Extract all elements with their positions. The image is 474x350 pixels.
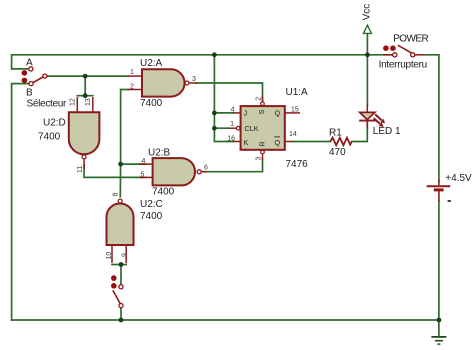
wire top rail drop to J/CLK/K (213, 55, 215, 128)
svg-text:Interrupteru: Interrupteru (379, 59, 427, 70)
svg-text:LED 1: LED 1 (373, 126, 401, 137)
svg-text:7400: 7400 (140, 98, 163, 109)
node junction bus pin4 (118, 162, 123, 167)
wire U2:A pin2 to vertical bus (121, 90, 128, 165)
svg-text:5: 5 (141, 172, 145, 179)
node junction switch/U2:D (83, 74, 88, 79)
wire bus to U2:C output (119, 164, 121, 197)
wire to CLK pin (214, 127, 229, 129)
wire left rail from B down (12, 84, 29, 320)
svg-text:13: 13 (85, 98, 92, 106)
wire R1 to LED cathode (352, 122, 368, 142)
NAND gate U2:C 7400 (pointing up) (106, 193, 163, 264)
wire U2:A output to U1 S pin (196, 83, 263, 101)
node junction J (212, 111, 217, 116)
JK flip-flop U1:A 7476 (227, 87, 308, 170)
node junction switch2 bottom (119, 318, 124, 323)
wire switch2 to bottom rail (120, 308, 122, 320)
LED LED1 (359, 104, 401, 138)
switch SW1 Sélecteur (SPDT selector A/B) (22, 58, 67, 110)
svg-text:11: 11 (77, 166, 84, 173)
svg-text:16: 16 (227, 136, 235, 143)
svg-text:8: 8 (112, 193, 119, 197)
wire Vcc stem (366, 34, 368, 55)
NAND gate U2:A 7400 (128, 58, 197, 109)
svg-text:15: 15 (291, 107, 299, 114)
node junction Vcc (365, 52, 370, 57)
svg-text:14: 14 (289, 131, 297, 138)
wire to J pin (214, 112, 233, 114)
svg-text:7400: 7400 (140, 211, 163, 222)
svg-text:3: 3 (255, 157, 262, 161)
switch SW3 POWER Interrupteru (379, 34, 429, 71)
wire top-left corner to A (12, 55, 29, 69)
svg-text:R: R (258, 141, 267, 146)
svg-text:4: 4 (231, 107, 235, 114)
svg-text:4: 4 (142, 158, 146, 165)
svg-text:6: 6 (204, 165, 208, 172)
svg-text:1: 1 (230, 121, 234, 128)
svg-text:Vcc: Vcc (361, 4, 372, 21)
wire top rail (12, 54, 393, 56)
wire U1 Qbar to R1 (292, 141, 331, 143)
svg-text:Q: Q (275, 109, 281, 118)
svg-text:Q: Q (275, 138, 281, 147)
wire switch common to U2:A pin1 (47, 75, 128, 77)
svg-text:K: K (244, 138, 249, 147)
svg-text:POWER: POWER (393, 34, 428, 45)
NAND gate U2:D 7400 (pointing down) (38, 97, 99, 173)
battery BT1 +4.5V (427, 173, 472, 201)
svg-text:+4.5V: +4.5V (445, 173, 472, 184)
wire battery minus to bottom rail (438, 201, 440, 321)
wire U2:D input tie bar (77, 95, 93, 97)
node junction U2:D tie (83, 93, 88, 98)
svg-text:7400: 7400 (38, 132, 61, 143)
wire U2:B output to U1 R pin (202, 160, 263, 172)
wire to K pin (214, 128, 233, 141)
node junction U2:C tie (119, 262, 124, 267)
svg-text:1: 1 (130, 69, 134, 76)
wire Vcc junction down to LED anode (366, 55, 368, 106)
svg-text:7476: 7476 (286, 159, 309, 170)
wire drop to U2:D inputs (84, 76, 86, 96)
svg-text:2: 2 (130, 84, 134, 91)
svg-text:Sélecteur: Sélecteur (27, 99, 68, 110)
svg-text:J: J (244, 109, 248, 118)
svg-text:CLK: CLK (245, 124, 259, 133)
svg-text:9: 9 (121, 253, 128, 257)
svg-text:U2:B: U2:B (148, 148, 171, 159)
svg-text:2: 2 (255, 97, 262, 101)
svg-text:R1: R1 (329, 128, 342, 139)
wire power switch to right rail (424, 55, 439, 181)
NAND gate U2:B 7400 (140, 148, 209, 198)
svg-text:S: S (257, 109, 266, 114)
switch SW2 (clock pushbutton) (111, 275, 123, 307)
wire bus to U2:B pin4 (121, 163, 146, 165)
svg-text:A: A (26, 58, 33, 69)
svg-text:3: 3 (192, 76, 196, 83)
svg-text:10: 10 (106, 252, 113, 260)
svg-text:U2:C: U2:C (140, 199, 163, 210)
wire U2:C inputs tie (112, 264, 126, 266)
svg-text:470: 470 (329, 147, 346, 158)
wire U2:C tie down to switch (120, 265, 122, 285)
ground (431, 320, 446, 344)
svg-text:U2:D: U2:D (43, 118, 66, 129)
svg-text:U1:A: U1:A (286, 87, 309, 98)
svg-text:B: B (26, 88, 33, 99)
svg-text:7400: 7400 (152, 187, 175, 198)
wire U2:D output to U2:B pin5 (84, 165, 146, 177)
svg-text:U2:A: U2:A (140, 58, 163, 69)
node junction top rail drop (212, 52, 217, 57)
resistor R1 470 (329, 128, 352, 159)
svg-text:12: 12 (70, 98, 77, 106)
node junction ground corner (437, 318, 442, 323)
node junction CLK (212, 126, 217, 131)
wire bottom rail (12, 319, 439, 321)
power symbol Vcc (361, 4, 372, 34)
